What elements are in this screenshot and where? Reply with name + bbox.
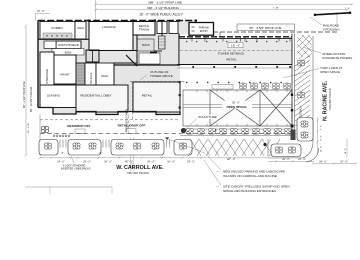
svg-text:TWO WAY TRAFFIC: TWO WAY TRAFFIC <box>329 88 332 110</box>
parking island 2 <box>68 140 101 156</box>
trellis X east <box>260 90 292 126</box>
svg-text:INVERTED U BIKE RACKS: INVERTED U BIKE RACKS <box>61 168 91 171</box>
mid rails <box>183 104 292 106</box>
bike racks note <box>61 156 91 171</box>
svg-text:N. RACINE AVE.: N. RACINE AVE. <box>323 80 329 121</box>
svg-text:20' - 0": 20' - 0" <box>320 146 322 152</box>
svg-text:PACKAGE: PACKAGE <box>90 72 93 84</box>
svg-text:RETAIL/DROP OFF: RETAIL/DROP OFF <box>118 124 146 128</box>
svg-text:RETAIL: RETAIL <box>226 57 237 61</box>
railroad crossing bar <box>314 12 352 17</box>
north wall west portion (dashed thick) <box>38 20 196 22</box>
svg-text:24' - 0": 24' - 0" <box>340 160 348 163</box>
svg-text:RESIDENTIAL LOBBY: RESIDENTIAL LOBBY <box>80 94 111 98</box>
elevators <box>86 50 99 62</box>
svg-text:16' - 0" WIDE PUBLIC ALLEY: 16' - 0" WIDE PUBLIC ALLEY <box>139 13 183 17</box>
bottom double rail <box>183 128 292 130</box>
svg-text:TWO WAY TRAFFIC: TWO WAY TRAFFIC <box>127 172 149 175</box>
building mass fill (west block) <box>38 21 196 115</box>
svg-text:CROSSING: CROSSING <box>323 28 340 32</box>
columns on storefront <box>192 66 291 68</box>
svg-text:24' - 0": 24' - 0" <box>345 148 347 154</box>
svg-text:5' - 0": 5' - 0" <box>320 125 322 130</box>
svg-text:ENTRY: ENTRY <box>200 30 208 33</box>
trellis rail ticks <box>197 90 287 126</box>
columns on retail east wall <box>179 81 181 109</box>
svg-text:60' - 0": 60' - 0" <box>125 161 133 164</box>
svg-text:24' - 0": 24' - 0" <box>187 161 195 164</box>
racine angled parking hatch <box>295 55 310 126</box>
dim extension line <box>95 0 97 20</box>
BOH band <box>52 49 84 56</box>
svg-text:MAINT: MAINT <box>60 73 70 77</box>
svg-text:24' - 0": 24' - 0" <box>83 161 91 164</box>
racine curb <box>312 36 314 141</box>
turf lawn note <box>283 66 342 78</box>
room RETAIL TRASH <box>133 22 155 36</box>
corner island with trees <box>271 144 301 157</box>
svg-text:MAIL: MAIL <box>101 74 109 78</box>
ramp lines below parking entry <box>182 39 194 41</box>
angled parking crosshatch carroll east <box>188 139 280 157</box>
svg-text:50' - 0": 50' - 0" <box>232 101 240 104</box>
carroll south curb west <box>25 186 112 188</box>
svg-text:RES/DROP OFF: RES/DROP OFF <box>67 124 90 128</box>
room trash2 <box>137 39 154 51</box>
notes bottom right <box>165 137 290 193</box>
racine island <box>297 118 313 142</box>
svg-text:RETAIL: RETAIL <box>142 94 153 98</box>
svg-text:GEN: GEN <box>77 26 84 30</box>
alley east end line <box>336 12 338 27</box>
svg-text:24' - 0": 24' - 0" <box>57 161 65 164</box>
south wall of loading block <box>114 64 180 66</box>
interlocking pavers note <box>303 47 352 60</box>
trellis X west <box>210 90 260 126</box>
svg-text:16' - 0": 16' - 0" <box>167 161 175 164</box>
prop line east (dashed) <box>213 31 337 33</box>
bike racks <box>53 135 70 137</box>
columns on north wall <box>88 20 197 22</box>
room MAIL <box>96 63 114 88</box>
intersection corner curbs <box>268 141 319 162</box>
retail strip along alley <box>179 32 292 65</box>
loading mid walls <box>89 50 137 52</box>
svg-text:LOADING: LOADING <box>102 25 117 29</box>
svg-text:388' - 3 1/2" PROP LINE: 388' - 3 1/2" PROP LINE <box>148 0 182 4</box>
svg-text:PROPOSED TOWER: PROPOSED TOWER <box>126 109 129 132</box>
svg-text:TOWER ABOVE: TOWER ABOVE <box>150 74 173 78</box>
parking stall ticks <box>60 140 170 148</box>
room STORAGE <box>40 52 54 95</box>
svg-text:SITE CANOPY TRELLISES SIGNIFYI: SITE CANOPY TRELLISES SIGNIFYING OPEN <box>223 184 290 188</box>
svg-text:20' - 0": 20' - 0" <box>282 158 290 161</box>
canopy dashed line <box>40 119 180 121</box>
svg-text:24' - 0": 24' - 0" <box>319 160 327 163</box>
svg-text:NEW ANGLED PARKING AND LANDSCA: NEW ANGLED PARKING AND LANDSCAPE <box>223 169 285 173</box>
svg-text:66' - 10 3/4" PODIUM: 66' - 10 3/4" PODIUM <box>29 87 33 112</box>
svg-text:15' - 6": 15' - 6" <box>37 10 45 13</box>
small box left of switchgear <box>44 41 56 49</box>
room PACKAGE <box>85 63 96 88</box>
top right small dims <box>273 8 350 10</box>
residential lobby <box>76 85 128 112</box>
top dimension line 1: 388' prop line <box>94 0 354 5</box>
retail west room <box>133 82 180 112</box>
svg-text:COMBO: COMBO <box>51 26 63 30</box>
room MAINT <box>54 55 76 84</box>
dark box at corner <box>291 130 296 141</box>
svg-text:SWITCHGEAR: SWITCHGEAR <box>58 43 80 47</box>
svg-text:SIDEWALK: SIDEWALK <box>300 105 303 118</box>
svg-text:3' - 6": 3' - 6" <box>345 8 350 10</box>
storefront lines <box>177 64 292 66</box>
left dim vertical prop line <box>22 25 33 157</box>
svg-text:8' - 0": 8' - 0" <box>320 135 322 140</box>
wall under combo row <box>38 38 89 40</box>
sculpture <box>181 115 219 133</box>
curb dashed along carroll <box>40 132 292 134</box>
svg-text:24' - 0": 24' - 0" <box>298 158 306 161</box>
svg-text:OPEN SPACE: OPEN SPACE <box>320 70 340 74</box>
parking island 1 <box>39 140 58 156</box>
planter band <box>212 85 233 90</box>
svg-text:ISLANDS ON CARROLL AND RACINE: ISLANDS ON CARROLL AND RACINE <box>223 174 277 178</box>
svg-text:SPACE AND BUILDING ENTRANCES: SPACE AND BUILDING ENTRANCES <box>223 189 276 193</box>
open space trellis <box>183 90 292 129</box>
svg-text:368' - 3 1/2" BUILDING: 368' - 3 1/2" BUILDING <box>147 6 180 10</box>
svg-text:W. CARROLL AVE.: W. CARROLL AVE. <box>116 165 164 171</box>
svg-text:132' - 8": 132' - 8" <box>231 45 240 48</box>
svg-text:PARKING: PARKING <box>199 26 210 29</box>
room LEASING <box>40 85 76 108</box>
room LOADING <box>89 22 133 51</box>
small rooms east of retail trash <box>157 22 167 34</box>
svg-text:TOWER SETBACK: TOWER SETBACK <box>218 52 246 56</box>
svg-text:24' - 0": 24' - 0" <box>147 161 155 164</box>
railroad crossing note <box>310 17 340 32</box>
racine right dim <box>316 117 318 153</box>
parking island 3 <box>111 140 164 156</box>
svg-text:127' - 0": 127' - 0" <box>227 158 236 161</box>
svg-text:OPEN SPACE: OPEN SPACE <box>226 105 246 109</box>
open space east walls <box>291 34 293 132</box>
centerline dashed vertical near retail dropoff <box>127 104 129 133</box>
west wall <box>37 21 39 108</box>
trees top row of open space <box>239 83 290 89</box>
svg-text:85' - 4 5/8" PROP LINE: 85' - 4 5/8" PROP LINE <box>249 26 281 30</box>
room SWITCHGEAR <box>56 41 81 49</box>
room COMBO <box>40 22 75 40</box>
svg-text:1' - 38": 1' - 38" <box>273 8 279 10</box>
svg-text:TRASH: TRASH <box>141 44 149 47</box>
tree on west sidewalk <box>41 126 48 132</box>
open space lower border <box>180 135 292 137</box>
svg-text:SCULPTURE: SCULPTURE <box>198 115 217 119</box>
svg-text:STORAGE: STORAGE <box>45 69 49 84</box>
room GEN <box>75 22 86 40</box>
svg-text:CONCRETE PAVERS: CONCRETE PAVERS <box>322 56 352 60</box>
svg-text:24' - 0": 24' - 0" <box>104 161 112 164</box>
parking entry <box>189 23 214 36</box>
pavers crosshatch <box>297 35 312 59</box>
stair core <box>76 63 85 88</box>
top dimension line 2: 368' building <box>94 6 349 12</box>
street dim line carroll <box>39 153 314 164</box>
west curb line vertical <box>39 114 41 156</box>
svg-text:TRASH: TRASH <box>139 28 150 32</box>
bottom right dims <box>312 162 357 164</box>
column dots row on sidewalk <box>186 82 282 83</box>
columns on east wall <box>291 94 294 128</box>
tower outline dashed <box>130 70 186 120</box>
svg-text:BOH: BOH <box>65 50 72 54</box>
parking island 4 <box>174 140 192 156</box>
south facade west block <box>38 108 180 115</box>
small top-left dim <box>36 10 51 21</box>
open space label <box>222 101 252 109</box>
racine trees <box>297 60 304 98</box>
small rooms below BOH <box>56 56 66 63</box>
svg-text:LEASING: LEASING <box>47 94 61 98</box>
svg-text:80' - 1 1/2" PROP LINE: 80' - 1 1/2" PROP LINE <box>22 81 26 108</box>
svg-text:28' - 6 1/2": 28' - 6 1/2" <box>28 122 30 133</box>
trees bottom row of open space <box>187 128 292 134</box>
